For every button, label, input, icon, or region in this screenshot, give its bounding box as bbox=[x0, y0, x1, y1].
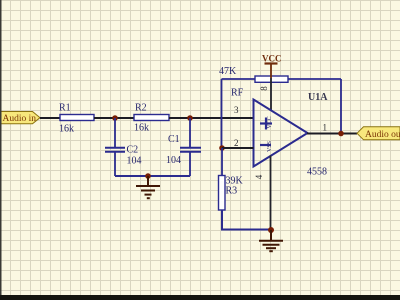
svg-text:8: 8 bbox=[259, 86, 269, 91]
ground (under filter rail) bbox=[136, 176, 160, 198]
wire: RF left horizontal bbox=[222, 78, 256, 80]
svg-text:R3: R3 bbox=[226, 186, 238, 197]
port Audio in bbox=[0, 112, 40, 124]
wire: VCC to op-amp pin 8 bbox=[270, 78, 272, 110]
wire: op-amp pin 4 down to ground bbox=[270, 156, 272, 230]
junction node3 (pin 2 node) bbox=[219, 145, 225, 151]
wire: C2 to ground rail bbox=[114, 152, 116, 176]
wire: node3 to op-amp pin 2 bbox=[222, 147, 254, 149]
wire: node1 down to C2 bbox=[114, 118, 116, 147]
power VCC bbox=[262, 54, 282, 79]
svg-text:1: 1 bbox=[323, 123, 328, 133]
wire: node2 down to C1 bbox=[189, 118, 191, 147]
port Audio out bbox=[357, 127, 400, 140]
svg-text:U1A: U1A bbox=[308, 92, 328, 103]
resistor R3 bbox=[219, 176, 226, 211]
ground (main) bbox=[259, 230, 283, 251]
wire: feedback left vertical bbox=[221, 79, 223, 148]
svg-text:R1: R1 bbox=[59, 103, 71, 114]
svg-text:3: 3 bbox=[234, 105, 239, 115]
wire: node3 down to R3 bbox=[221, 148, 223, 176]
svg-text:C2: C2 bbox=[127, 145, 139, 156]
op-amp U1A bbox=[254, 100, 308, 167]
svg-text:16k: 16k bbox=[134, 123, 149, 134]
capacitor C2 bbox=[105, 148, 125, 152]
wire: op-amp output bbox=[307, 133, 357, 135]
bottom frame bar bbox=[0, 295, 400, 300]
left frame edge bbox=[0, 0, 2, 300]
svg-text:Audio in: Audio in bbox=[3, 114, 37, 124]
wire: Audio in to R1 bbox=[40, 117, 60, 119]
svg-text:VCC: VCC bbox=[267, 116, 273, 128]
svg-text:47K: 47K bbox=[219, 66, 237, 77]
svg-text:VSS: VSS bbox=[267, 141, 273, 152]
svg-text:16k: 16k bbox=[59, 124, 74, 135]
wire: R3 bottom to ground bbox=[222, 210, 271, 230]
wire: C1 to ground rail bbox=[189, 152, 191, 176]
svg-text:4558: 4558 bbox=[307, 167, 327, 178]
wire: R1 to R2 bbox=[94, 117, 134, 119]
junction ground rail bbox=[145, 173, 151, 179]
junction ground node bbox=[268, 227, 274, 233]
wire: R2 to op-amp pin 3 bbox=[169, 117, 254, 119]
junction output node bbox=[338, 131, 344, 137]
svg-text:Audio out: Audio out bbox=[365, 130, 400, 140]
resistor RF bbox=[255, 76, 288, 82]
svg-text:R2: R2 bbox=[135, 103, 147, 114]
svg-text:RF: RF bbox=[231, 88, 244, 99]
wire: ground rail under C2 and C1 bbox=[115, 175, 190, 177]
wire: RF right to feedback corner bbox=[288, 78, 341, 80]
svg-text:4: 4 bbox=[254, 174, 264, 179]
junction node2 bbox=[187, 115, 193, 121]
svg-text:2: 2 bbox=[234, 138, 239, 148]
wire: feedback down to output node bbox=[340, 79, 342, 134]
svg-text:C1: C1 bbox=[168, 134, 180, 145]
svg-text:VCC: VCC bbox=[262, 54, 282, 64]
resistor R2 bbox=[134, 115, 169, 121]
resistor R1 bbox=[60, 115, 94, 121]
svg-text:104: 104 bbox=[127, 156, 142, 167]
junction node1 bbox=[112, 115, 118, 121]
capacitor C1 bbox=[180, 148, 201, 152]
svg-text:104: 104 bbox=[166, 155, 181, 166]
